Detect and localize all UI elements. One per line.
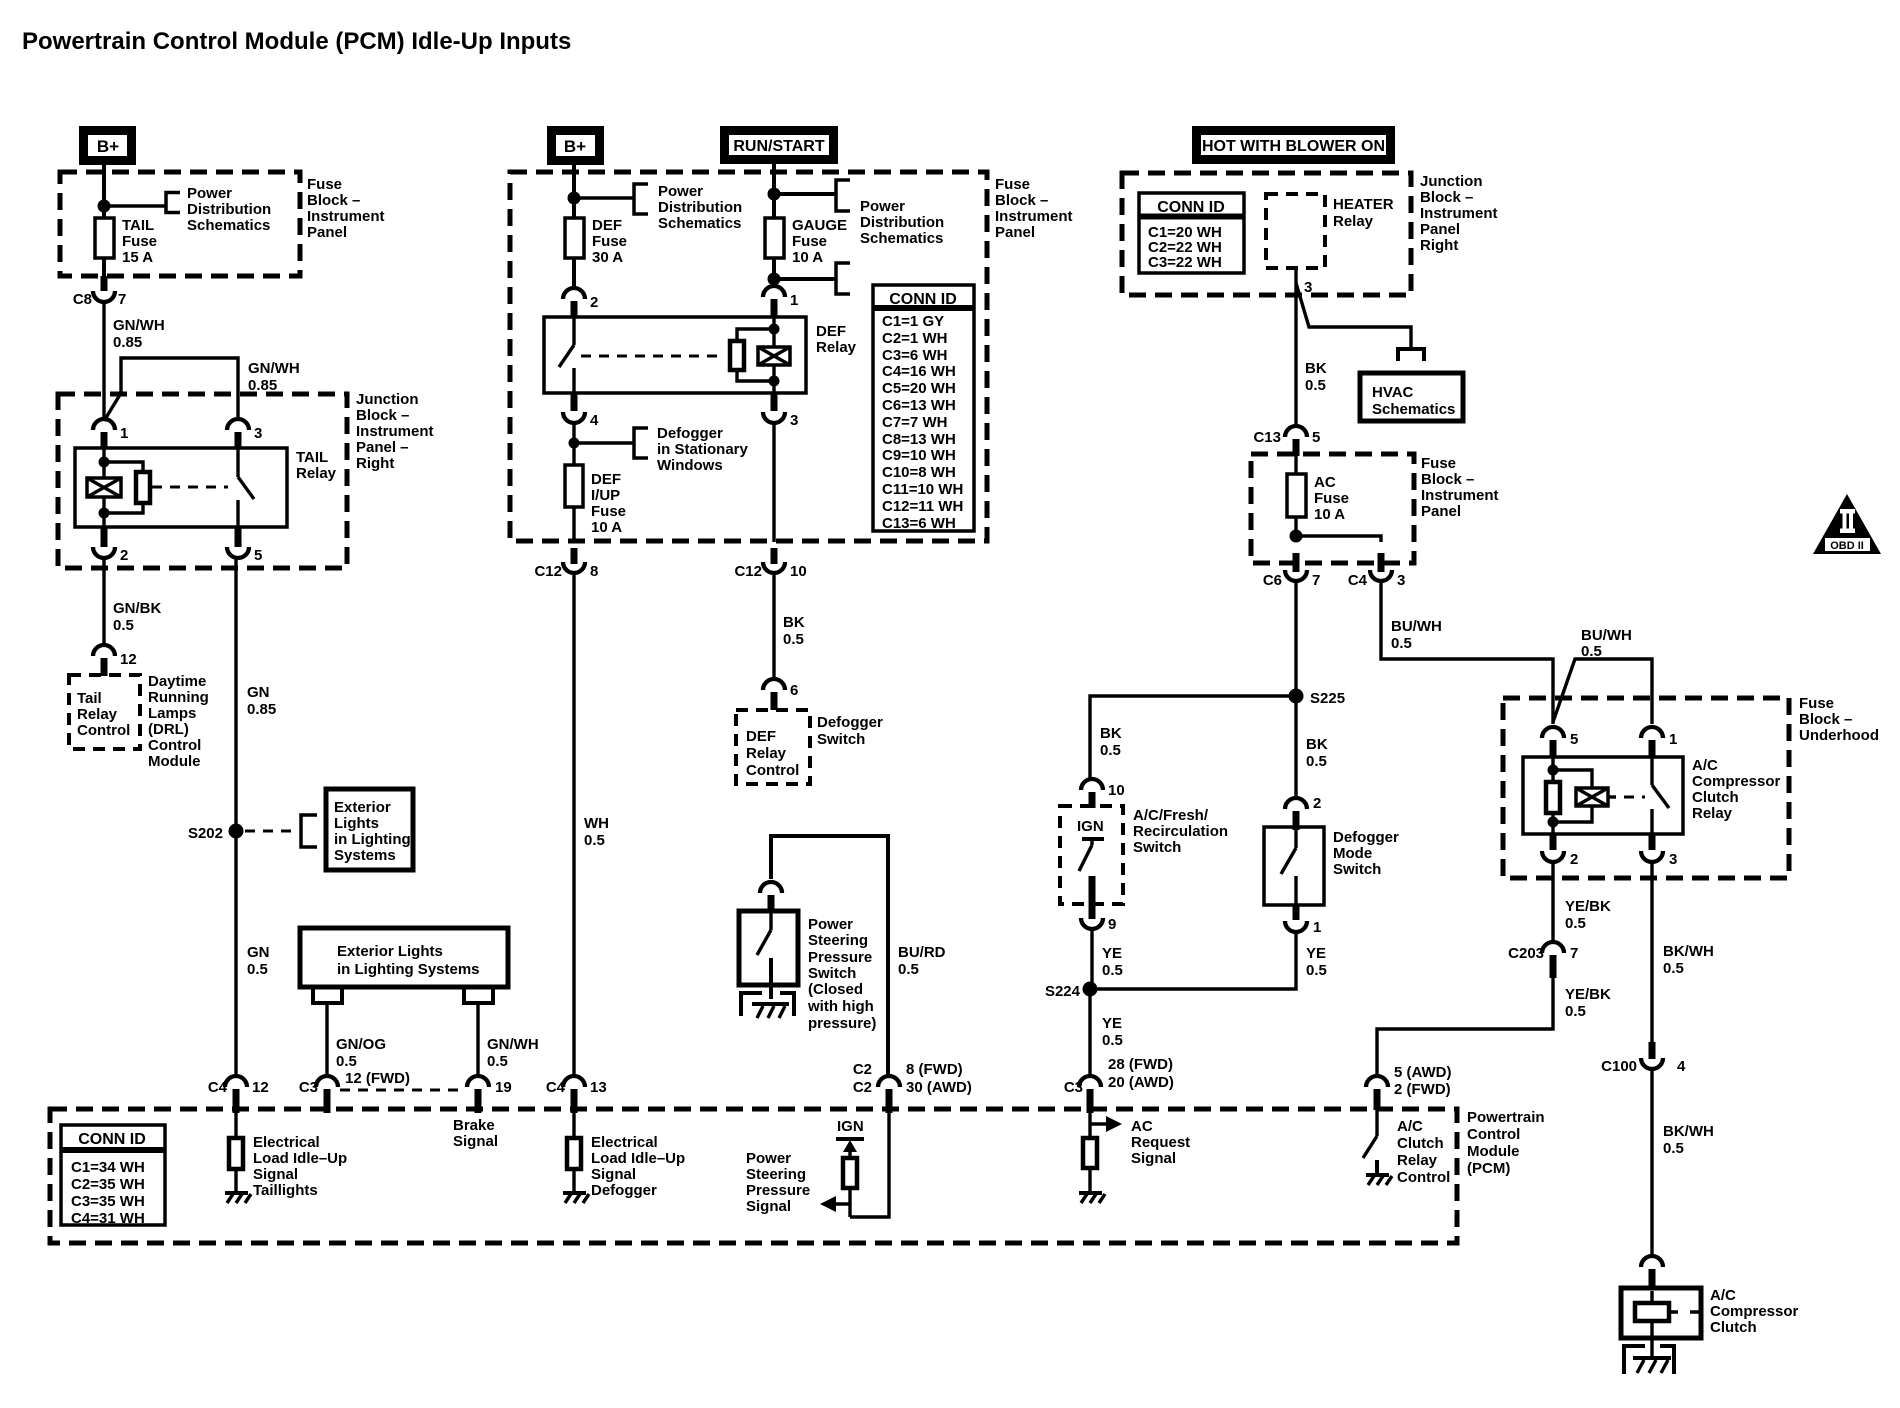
ground A/C compressor clutch [1624, 1346, 1674, 1374]
label HVAC Schematics [1372, 384, 1455, 418]
svg-text:BK: BK [1306, 736, 1328, 753]
svg-text:Mode: Mode [1333, 845, 1372, 862]
svg-text:C2: C2 [853, 1079, 872, 1096]
svg-text:C6=13 WH: C6=13 WH [882, 397, 956, 414]
svg-text:3: 3 [254, 425, 262, 442]
label WH 0.5 [584, 815, 609, 849]
label DEF Relay Control [746, 728, 799, 779]
svg-text:4: 4 [590, 412, 599, 429]
connector C4 pin 12 [208, 1076, 269, 1113]
svg-text:0.5: 0.5 [1305, 377, 1326, 394]
svg-text:Taillights: Taillights [253, 1182, 318, 1199]
node junction above GAUGE fuse [768, 188, 781, 201]
svg-text:Instrument: Instrument [356, 423, 434, 440]
label GAUGE Fuse 10 A [792, 217, 847, 266]
svg-text:28 (FWD): 28 (FWD) [1108, 1056, 1173, 1073]
svg-text:Relay: Relay [77, 706, 118, 723]
svg-text:with high: with high [807, 998, 874, 1015]
svg-text:Relay: Relay [1397, 1152, 1438, 1169]
svg-text:Block –: Block – [356, 407, 409, 424]
bracket power distribution schematics (DEF) [634, 184, 648, 214]
wire GAUGE fuse to relay pin 1 [772, 258, 776, 285]
svg-text:DEF: DEF [746, 728, 776, 745]
svg-text:Distribution: Distribution [860, 214, 944, 231]
svg-text:Tail: Tail [77, 690, 102, 707]
label Power Distribution Schematics (GAUGE) [860, 198, 944, 247]
svg-text:1: 1 [1669, 731, 1677, 748]
node junction above DEF fuse [568, 192, 581, 205]
svg-text:Clutch: Clutch [1397, 1135, 1444, 1152]
svg-text:2 (FWD): 2 (FWD) [1394, 1081, 1451, 1098]
connector C12 pin 10 [734, 548, 806, 580]
label BU/RD 0.5 [898, 944, 946, 978]
fuse block instrument panel (middle) dashed box [510, 172, 987, 541]
label DEF Fuse 30 A [592, 217, 627, 266]
fuse TAIL Fuse 15 A [95, 218, 114, 258]
connector pin 3 of TAIL relay [227, 419, 262, 449]
OBD II marker triangle [1813, 494, 1881, 554]
label BK 0.5 (defogger) [783, 614, 805, 648]
svg-text:3: 3 [1669, 851, 1677, 868]
label Power Steering Pressure Switch (Closed with high pressure) [807, 916, 876, 1032]
connector pin 3 of DEF relay [763, 393, 798, 429]
A/C relay switch [1652, 757, 1669, 834]
svg-text:Exterior: Exterior [334, 799, 391, 816]
svg-text:7: 7 [118, 291, 126, 308]
IGN pull-up resistor [843, 1152, 857, 1217]
svg-text:12: 12 [120, 651, 137, 668]
svg-text:Relay: Relay [816, 339, 857, 356]
bracket power distribution schematics (left) [166, 193, 180, 213]
label YE 0.5 (left) [1102, 945, 1123, 979]
switch power steering pressure box [739, 911, 798, 985]
svg-text:S224: S224 [1045, 983, 1081, 1000]
power steering switch blade [757, 911, 771, 999]
TAIL relay switch [238, 449, 254, 527]
svg-text:BU/RD: BU/RD [898, 944, 946, 961]
svg-text:15 A: 15 A [122, 249, 153, 266]
bracket HVAC reference [1398, 349, 1424, 361]
svg-text:10: 10 [1108, 782, 1125, 799]
svg-text:Junction: Junction [356, 391, 419, 408]
Exterior Lights in Lighting Systems box (small) [326, 789, 413, 870]
svg-text:GN/WH: GN/WH [487, 1036, 539, 1053]
svg-text:Relay: Relay [296, 465, 337, 482]
svg-text:C7=7 WH: C7=7 WH [882, 414, 947, 431]
label Power Distribution Schematics (DEF) [658, 183, 742, 232]
fuse block instrument panel (AC) dashed box [1251, 454, 1414, 563]
TAIL relay resistor [136, 472, 150, 503]
svg-text:Signal: Signal [253, 1166, 298, 1183]
bracket power distribution schematics (GAUGE upper) [836, 180, 850, 211]
wire YE/BK pin 2 to C203 [1551, 864, 1554, 941]
svg-text:Clutch: Clutch [1692, 789, 1739, 806]
svg-text:10 A: 10 A [1314, 506, 1345, 523]
node junction below GAUGE fuse [768, 273, 781, 286]
svg-text:Recirculation: Recirculation [1133, 823, 1228, 840]
svg-text:C12: C12 [734, 563, 762, 580]
TAIL relay coil symbol [87, 478, 121, 497]
label Electrical Load Idle-Up Signal Defogger [591, 1134, 685, 1199]
svg-text:Power: Power [808, 916, 853, 933]
svg-text:Fuse: Fuse [307, 176, 342, 193]
svg-text:A/C: A/C [1710, 1287, 1736, 1304]
wire branch to C4-3 [1296, 536, 1381, 542]
svg-text:C2: C2 [853, 1061, 872, 1078]
svg-text:2: 2 [120, 547, 128, 564]
wire BK/WH C100 to compressor clutch [1650, 1069, 1653, 1255]
wire BK from C6-7 down to S225 [1294, 581, 1297, 696]
svg-text:Load Idle–Up: Load Idle–Up [253, 1150, 347, 1167]
fuse DEF I/UP Fuse 10 A [565, 465, 583, 507]
svg-text:RUN/START: RUN/START [733, 138, 824, 155]
bracket defogger in stationary windows [634, 428, 648, 458]
label TAIL Fuse 15 A [122, 217, 157, 266]
svg-text:Running: Running [148, 689, 209, 706]
connector C3 pin 12 (FWD) [299, 1070, 410, 1113]
wire pin 4 down to DEF I/UP fuse [572, 424, 575, 465]
svg-text:CONN ID: CONN ID [889, 291, 957, 308]
A/C relay resistor and coil branch [1546, 757, 1592, 834]
PCM dashed box [50, 1109, 1457, 1243]
label Defogger Mode Switch [1333, 829, 1399, 878]
svg-text:30 A: 30 A [592, 249, 623, 266]
svg-text:0.85: 0.85 [113, 334, 142, 351]
svg-text:0.5: 0.5 [113, 617, 134, 634]
svg-text:S202: S202 [188, 825, 223, 842]
svg-text:Schematics: Schematics [658, 215, 741, 232]
svg-text:4: 4 [1677, 1058, 1686, 1075]
svg-text:10 A: 10 A [591, 519, 622, 536]
wire BK down to defogger switch pin 6 [772, 573, 775, 678]
svg-text:BU/WH: BU/WH [1581, 627, 1632, 644]
svg-text:Block –: Block – [1799, 711, 1852, 728]
DEF relay dashed control line [581, 355, 722, 358]
svg-text:Relay: Relay [1333, 213, 1374, 230]
label Defogger Switch [817, 714, 883, 748]
node TAIL relay coil bottom [99, 508, 110, 519]
svg-text:C3=22 WH: C3=22 WH [1148, 254, 1222, 271]
wire RUN/START to GAUGE fuse [772, 163, 776, 219]
DEF relay switch [559, 318, 574, 393]
svg-text:GAUGE: GAUGE [792, 217, 847, 234]
CONN ID table (junction block right) [1139, 193, 1244, 273]
svg-text:GN/WH: GN/WH [248, 360, 300, 377]
svg-text:0.5: 0.5 [1100, 742, 1121, 759]
wire to power distribution bracket (GAUGE lower) [774, 277, 836, 281]
svg-text:10: 10 [790, 563, 807, 580]
svg-text:OBD II: OBD II [1830, 540, 1864, 552]
connector pin 4 of DEF relay [563, 393, 599, 429]
label GN/BK 0.5 [113, 600, 162, 634]
svg-text:BK: BK [1305, 360, 1327, 377]
wire BK/WH pin 3 to C100 [1650, 864, 1653, 1042]
svg-text:in Lighting: in Lighting [334, 831, 411, 848]
svg-text:Right: Right [1420, 237, 1458, 254]
svg-text:13: 13 [590, 1079, 607, 1096]
label YE 0.5 (right) [1306, 945, 1327, 979]
svg-text:C3: C3 [1064, 1079, 1083, 1096]
connector pin 2 defogger mode switch [1285, 795, 1321, 830]
svg-text:C12: C12 [534, 563, 562, 580]
connector C3 pin 28(FWD)/20(AWD) [1064, 1056, 1174, 1113]
svg-text:0.5: 0.5 [487, 1053, 508, 1070]
svg-text:(PCM): (PCM) [1467, 1160, 1510, 1177]
label GN 0.85 [247, 684, 276, 718]
label Fuse Block - Instrument Panel (middle) [995, 176, 1073, 241]
wire heater relay pin 3 down to C13-5 [1294, 268, 1297, 427]
HVAC Schematics box [1360, 373, 1463, 421]
wire C13 to AC fuse [1294, 456, 1297, 474]
Exterior Lights in Lighting Systems box (wide) [300, 928, 508, 987]
label A/C Compressor Clutch [1710, 1287, 1799, 1336]
svg-text:0.5: 0.5 [898, 961, 919, 978]
svg-text:GN: GN [247, 944, 270, 961]
svg-text:Control: Control [1397, 1169, 1450, 1186]
connector power steering pressure switch [760, 882, 782, 911]
AC request arrow [1090, 1109, 1122, 1132]
svg-text:GN/OG: GN/OG [336, 1036, 386, 1053]
connector pin 12 DRL module [93, 645, 137, 676]
connector pin 5 of TAIL relay [227, 527, 262, 564]
svg-text:Power: Power [658, 183, 703, 200]
node junction defogger stationary windows [569, 438, 580, 449]
connector C2 pin 8(FWD)/30(AWD) [853, 1061, 972, 1113]
connector C4 pin 13 [546, 1076, 607, 1113]
label GN/WH 0.85 (branch) [248, 360, 300, 394]
svg-text:C203: C203 [1508, 945, 1544, 962]
switch defogger mode box [1264, 827, 1324, 905]
svg-text:Pressure: Pressure [746, 1182, 810, 1199]
label BU/WH 0.5 (left) [1391, 618, 1442, 652]
wire DEF relay pin3 down to C12-10 [772, 424, 775, 542]
svg-text:in Stationary: in Stationary [657, 441, 749, 458]
bracket left output of exterior lights box [313, 988, 342, 1003]
svg-text:DEF: DEF [592, 217, 622, 234]
svg-text:0.5: 0.5 [1306, 753, 1327, 770]
svg-text:Signal: Signal [591, 1166, 636, 1183]
label BK 0.5 (defogger mode) [1306, 736, 1328, 770]
taillights load resistor [229, 1109, 243, 1193]
node S225 splice [1289, 689, 1346, 708]
connector C8 pin 7 [73, 276, 127, 308]
bracket power distribution schematics (GAUGE lower) [836, 263, 850, 294]
connector pin 1 defogger mode switch [1285, 905, 1321, 936]
label DEF I/UP Fuse 10 A [591, 471, 626, 536]
connector C6 pin 7 [1263, 553, 1321, 589]
svg-text:TAIL: TAIL [296, 449, 328, 466]
label A/C/Fresh/Recirculation Switch [1133, 807, 1228, 856]
svg-text:C11=10 WH: C11=10 WH [882, 481, 963, 498]
svg-text:Power: Power [746, 1150, 791, 1167]
relay A/C compressor clutch box [1523, 757, 1683, 834]
svg-text:Switch: Switch [1333, 861, 1381, 878]
svg-text:I/UP: I/UP [591, 487, 620, 504]
svg-text:Signal: Signal [746, 1198, 791, 1215]
svg-text:Underhood: Underhood [1799, 727, 1879, 744]
ground defogger signal [563, 1193, 589, 1203]
wire BU/WH jumper pin 5 to pin 1 [1553, 659, 1652, 724]
A/C compressor clutch box [1621, 1288, 1701, 1338]
svg-text:12 (FWD): 12 (FWD) [345, 1070, 410, 1087]
svg-text:Switch: Switch [817, 731, 865, 748]
label GN 0.5 [247, 944, 270, 978]
svg-text:0.5: 0.5 [1391, 635, 1412, 652]
label GN/OG 0.5 [336, 1036, 386, 1070]
svg-text:C9=10 WH: C9=10 WH [882, 447, 956, 464]
wire AC fuse to C6-7 [1294, 517, 1297, 542]
svg-text:C1=1 GY: C1=1 GY [882, 313, 944, 330]
svg-text:HEATER: HEATER [1333, 196, 1394, 213]
label YE/BK 0.5 (upper) [1565, 898, 1611, 932]
label YE 0.5 (below S224) [1102, 1015, 1123, 1049]
svg-text:Signal: Signal [453, 1133, 498, 1150]
IGN switch dashed box [1060, 806, 1123, 904]
junction block instrument panel right (left) dashed box [58, 394, 347, 568]
label Power Distribution Schematics (left) [187, 185, 271, 234]
svg-text:Panel: Panel [995, 224, 1035, 241]
label Daytime Running Lamps (DRL) Control Module [148, 673, 209, 770]
wire pin5 GN down to PCM connector C4-12 [234, 558, 237, 1076]
svg-text:Fuse: Fuse [1314, 490, 1349, 507]
svg-text:TAIL: TAIL [122, 217, 154, 234]
label TAIL Relay [296, 449, 337, 482]
svg-text:Fuse: Fuse [591, 503, 626, 520]
svg-text:C4=16 WH: C4=16 WH [882, 363, 956, 380]
node TAIL relay coil top [99, 457, 110, 468]
svg-text:Distribution: Distribution [658, 199, 742, 216]
A/C relay coil symbol [1576, 788, 1608, 806]
fuse block underhood dashed box [1503, 698, 1789, 878]
DEF relay coil symbol [758, 347, 790, 365]
ground power steering pressure switch [741, 993, 794, 1018]
svg-text:A/C: A/C [1397, 1118, 1423, 1135]
svg-text:12: 12 [252, 1079, 269, 1096]
svg-text:Relay: Relay [746, 745, 787, 762]
CONN ID table (fuse block middle) [873, 285, 974, 532]
relay DEF Relay box [544, 317, 806, 393]
label Junction Block - Instrument Panel Right [1420, 173, 1498, 254]
svg-text:7: 7 [1570, 945, 1578, 962]
svg-text:Switch: Switch [808, 965, 856, 982]
node S224 splice [1045, 982, 1098, 1001]
fuse AC Fuse 10 A [1287, 474, 1306, 517]
svg-text:Fuse: Fuse [592, 233, 627, 250]
svg-text:1: 1 [790, 292, 798, 309]
defogger mode switch blade [1281, 830, 1296, 905]
svg-text:0.5: 0.5 [1565, 915, 1586, 932]
label A/C Clutch Relay Control [1397, 1118, 1450, 1186]
ground A/C clutch relay control [1366, 1175, 1392, 1185]
wire GN/WH to junction block pin 1 [102, 304, 105, 421]
svg-text:B+: B+ [564, 137, 586, 156]
svg-text:C5=20 WH: C5=20 WH [882, 380, 956, 397]
defogger load resistor [567, 1109, 581, 1193]
A/C compressor clutch coil [1635, 1291, 1699, 1358]
TAIL relay coil branch wires [102, 449, 105, 527]
svg-text:C3=35 WH: C3=35 WH [71, 1193, 145, 1210]
svg-text:Defogger: Defogger [657, 425, 723, 442]
fuse DEF Fuse 30 A [565, 218, 584, 258]
svg-text:C10=8 WH: C10=8 WH [882, 464, 956, 481]
label GN/WH 0.85 (upper) [113, 317, 165, 351]
wire branch pin1 to pin3 GN/WH [104, 358, 238, 421]
svg-text:C4: C4 [546, 1079, 566, 1096]
svg-text:DEF: DEF [816, 323, 846, 340]
svg-text:Instrument: Instrument [995, 208, 1073, 225]
svg-text:Block –: Block – [995, 192, 1048, 209]
svg-text:GN/BK: GN/BK [113, 600, 162, 617]
label YE/BK 0.5 (lower) [1565, 986, 1611, 1020]
ground taillights signal [225, 1193, 251, 1203]
connector A/C compressor clutch [1641, 1256, 1663, 1289]
svg-text:C2=1 WH: C2=1 WH [882, 330, 947, 347]
svg-text:A/C/Fresh/: A/C/Fresh/ [1133, 807, 1209, 824]
wire power steering pressure switch top loop [771, 836, 888, 1076]
svg-text:C8=13 WH: C8=13 WH [882, 431, 956, 448]
connector pin 5(AWD)/2(FWD) clutch relay control [1366, 1064, 1452, 1110]
svg-text:Panel: Panel [307, 224, 347, 241]
svg-text:Control: Control [1467, 1126, 1520, 1143]
wire BU/WH from C4-3 to A/C relay pin 5 [1381, 581, 1553, 724]
label AC Request Signal [1131, 1118, 1190, 1167]
svg-text:0.85: 0.85 [247, 701, 276, 718]
svg-text:Request: Request [1131, 1134, 1190, 1151]
svg-text:C13=6 WH: C13=6 WH [882, 515, 956, 532]
connector C13 pin 5 [1253, 426, 1320, 456]
svg-text:YE: YE [1306, 945, 1326, 962]
svg-text:C12=11 WH: C12=11 WH [882, 498, 963, 515]
power terminal RUN/START [725, 131, 834, 160]
svg-text:YE/BK: YE/BK [1565, 898, 1611, 915]
connector pin 1 A/C compressor clutch relay [1641, 727, 1677, 758]
connector C203 pin 7 [1508, 942, 1578, 978]
label Fuse Block - Underhood [1799, 695, 1879, 744]
svg-text:5: 5 [254, 547, 262, 564]
connector C100 pin 4 [1601, 1042, 1686, 1075]
DEF relay coil branch wires [772, 318, 775, 393]
svg-text:0.5: 0.5 [1663, 1140, 1684, 1157]
svg-text:Brake: Brake [453, 1117, 495, 1134]
svg-text:2: 2 [590, 294, 598, 311]
svg-text:YE: YE [1102, 945, 1122, 962]
svg-text:Steering: Steering [808, 932, 868, 949]
label Fuse Block - Instrument Panel (left) [307, 176, 385, 241]
node junction below AC fuse [1290, 530, 1303, 543]
svg-text:IGN: IGN [837, 1118, 864, 1135]
svg-text:DEF: DEF [591, 471, 621, 488]
svg-text:C1=34 WH: C1=34 WH [71, 1159, 145, 1176]
svg-text:C4=31 WH: C4=31 WH [71, 1210, 145, 1227]
ground AC request [1079, 1193, 1105, 1203]
power terminal HOT WITH BLOWER ON [1197, 131, 1391, 160]
DEF Relay Control dashed box [736, 710, 810, 784]
label Brake Signal [453, 1117, 498, 1150]
svg-text:0.85: 0.85 [248, 377, 277, 394]
svg-text:0.5: 0.5 [1102, 962, 1123, 979]
connector C4 pin 3 [1348, 553, 1406, 589]
svg-text:3: 3 [1304, 279, 1312, 296]
svg-text:C3=6 WH: C3=6 WH [882, 347, 947, 364]
label BK 0.5 (IGN branch) [1100, 725, 1122, 759]
wire S225 down to defogger mode switch [1294, 696, 1297, 798]
wire B+ to TAIL fuse [102, 163, 106, 219]
power steering signal arrow [820, 1196, 850, 1212]
svg-text:8 (FWD): 8 (FWD) [906, 1061, 963, 1078]
svg-text:Distribution: Distribution [187, 201, 271, 218]
connector C12 pin 8 [534, 548, 598, 580]
label Exterior Lights in Lighting Systems (wide) [337, 943, 480, 978]
